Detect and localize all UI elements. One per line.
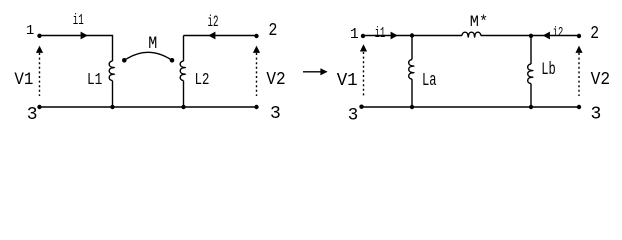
svg-text:2: 2 [268,21,277,41]
svg-text:V1: V1 [14,70,33,90]
svg-text:Lb: Lb [541,60,556,80]
svg-text:1: 1 [350,27,359,43]
svg-text:i1: i1 [375,26,386,42]
svg-text:3: 3 [270,104,281,124]
svg-text:M*: M* [470,13,488,31]
svg-text:V1: V1 [337,70,358,91]
svg-text:i2: i2 [208,13,219,31]
svg-text:M: M [148,34,157,54]
svg-text:L2: L2 [195,71,210,90]
svg-text:V2: V2 [591,69,611,90]
svg-text:1: 1 [26,23,34,39]
svg-text:3: 3 [591,105,602,125]
svg-text:L1: L1 [87,71,102,90]
svg-text:3: 3 [27,105,38,125]
svg-text:i1: i1 [73,12,84,29]
svg-text:V2: V2 [266,69,285,90]
svg-text:La: La [422,71,437,91]
svg-text:3: 3 [348,106,359,126]
svg-text:2: 2 [590,24,599,44]
svg-text:i2: i2 [553,26,564,41]
